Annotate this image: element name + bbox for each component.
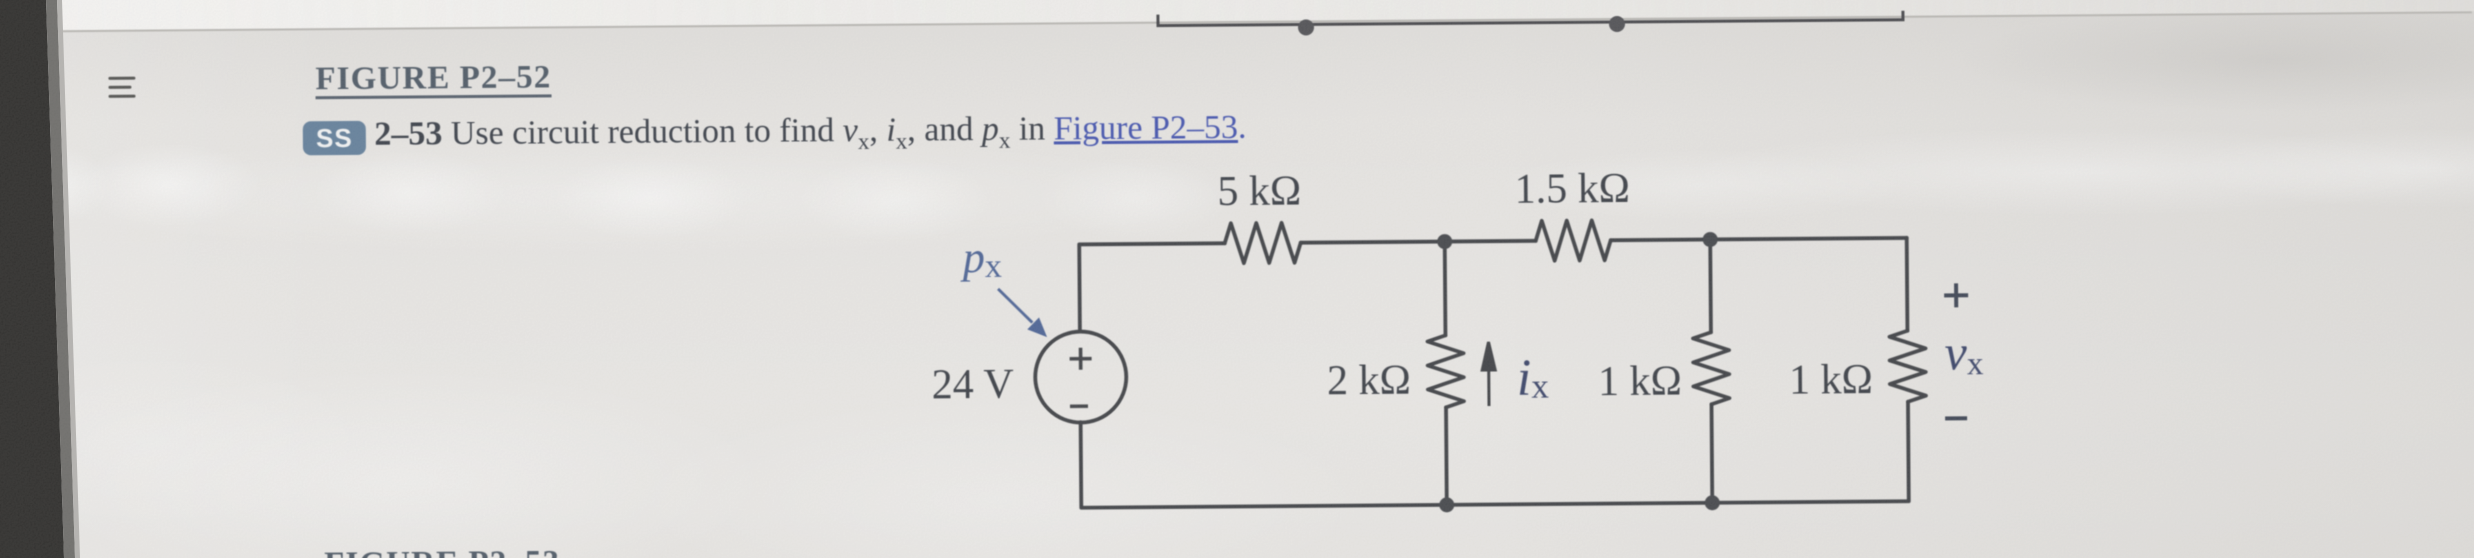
node D (bottom) junction dot [1705,495,1720,510]
resistor R4 1 kOhm (middle vertical) [1693,332,1730,404]
wire: 5k to node A [1301,242,1444,243]
minus sign of v_x [1945,416,1967,420]
problem line [303,111,1247,163]
bottom partial heading [324,546,560,558]
separator line [38,11,2472,32]
node A (top) junction dot [1437,234,1452,249]
heading FIGURE P2-52 [315,61,551,99]
voltage source V1 circle [1035,331,1127,423]
resistor R5 1 kOhm (right vertical) [1889,331,1926,402]
previous figure bottom wire [1158,9,1903,26]
voltage source plus sign [1070,348,1092,407]
hamburger menu icon [108,77,135,80]
dark left edge of photo [0,0,120,558]
node on previous figure wire (right) [1609,16,1625,32]
wire: node A to 1.5k [1444,239,1536,244]
node B (top) junction dot [1703,232,1718,247]
node on previous figure wire (left) [1298,19,1314,35]
wire: right side down to R5 [1905,238,1910,331]
wire: 1.5k to node B and right corner [1611,238,1907,240]
current arrow i_x [1482,342,1496,406]
node C (bottom) junction dot [1439,497,1454,512]
wire: node B down to R4 [1708,239,1713,332]
wire: R5 down to bottom right corner and bottom wire [1081,402,1909,508]
resistor R1 5 kOhm (horizontal) [1225,223,1301,264]
wire: node A down to R3 [1443,242,1448,336]
plus sign of v_x [1944,283,1969,418]
voltage source minus sign [1070,404,1088,408]
wire: R4 to bottom wire [1710,404,1715,502]
resistor R2 1.5 kOhm (horizontal) [1536,220,1611,261]
wire: R3 to bottom wire [1444,407,1449,504]
resistor R3 2 kOhm (vertical) [1427,335,1464,407]
power arrow p_x [998,289,1044,335]
wire: top left from source to 5k [1079,243,1225,331]
top light strip above separator [38,0,2474,30]
